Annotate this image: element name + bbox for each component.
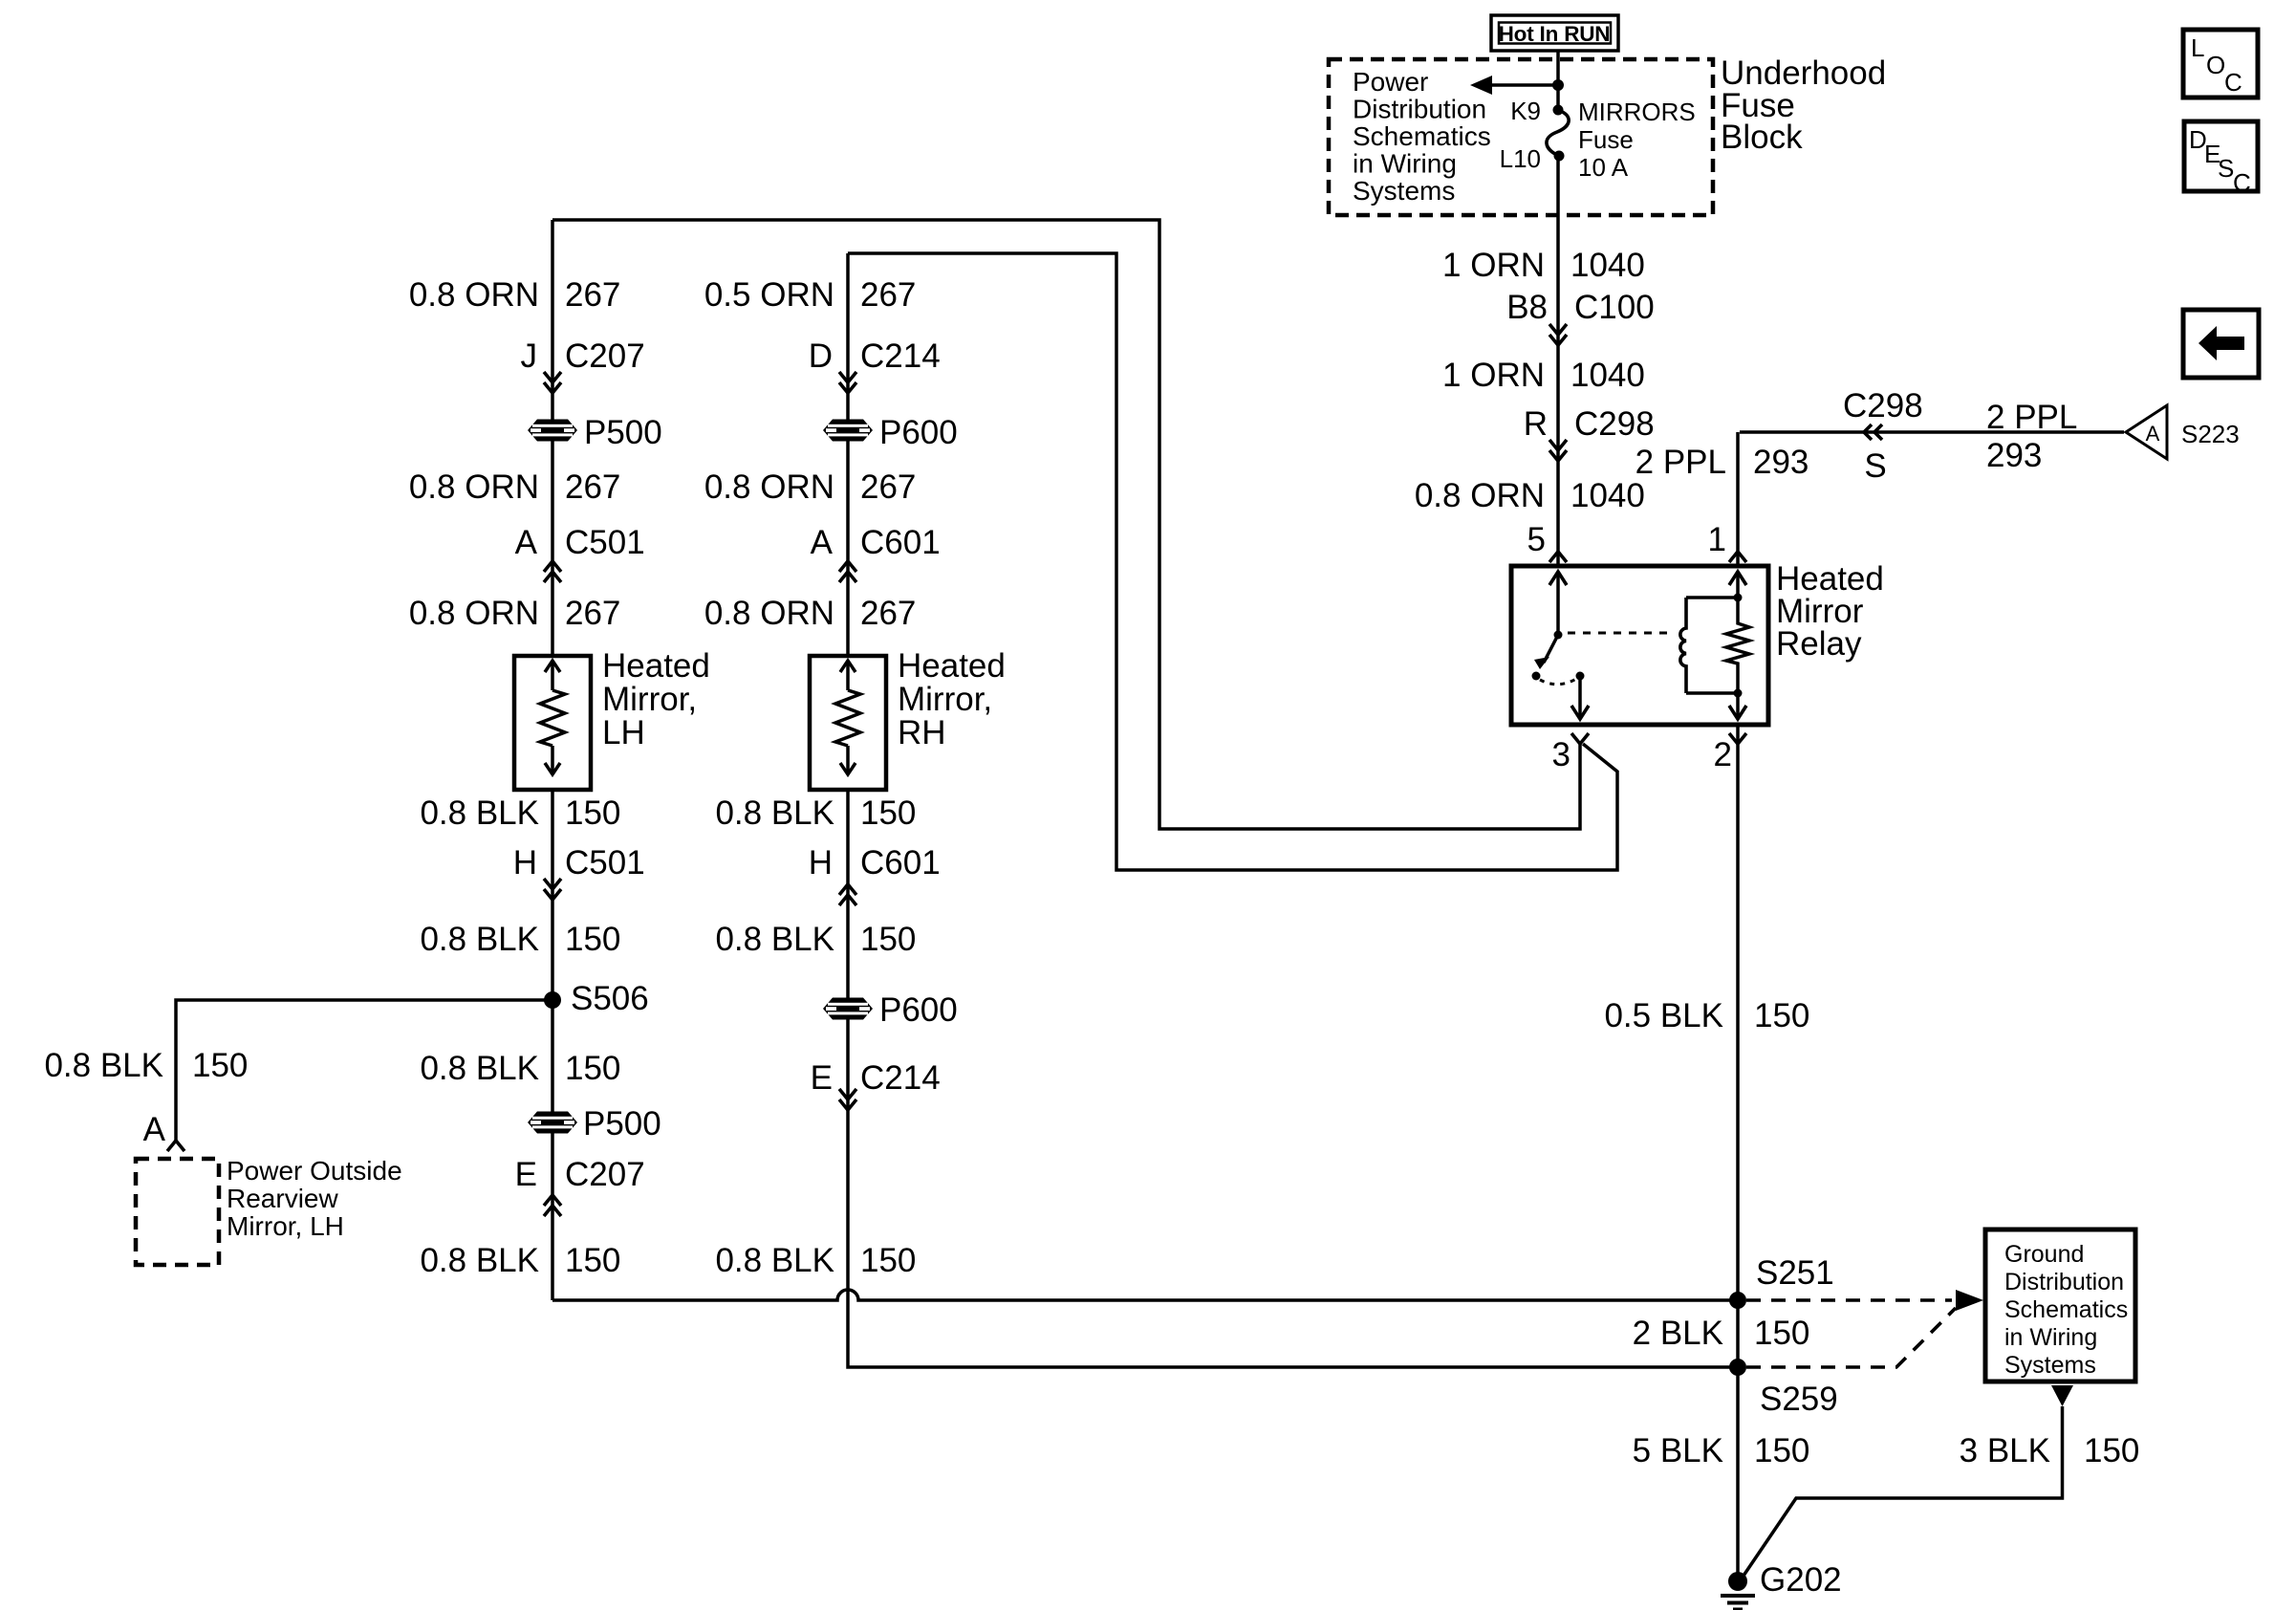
- svg-text:D: D: [809, 337, 833, 375]
- svg-text:150: 150: [1754, 997, 1809, 1034]
- svg-text:0.8 BLK: 0.8 BLK: [420, 921, 539, 958]
- svg-text:0.8 ORN: 0.8 ORN: [1415, 477, 1545, 514]
- svg-text:0.8 ORN: 0.8 ORN: [409, 595, 539, 632]
- svg-text:O: O: [2206, 51, 2225, 79]
- description reference box DESC: [2184, 121, 2258, 197]
- svg-text:Heated: Heated: [898, 647, 1006, 685]
- wire: 2 PPL 293 down to relay pin 1: [1736, 432, 1740, 566]
- relay mechanical link (dashed): [1568, 632, 1675, 635]
- wire: 1 ORN 1040 C100 to C298: [1556, 335, 1560, 450]
- svg-text:2 PPL: 2 PPL: [1986, 399, 2077, 436]
- svg-text:Distribution: Distribution: [1353, 95, 1486, 124]
- dashed reference from S251 to ground distribution schematics: [1746, 1298, 1952, 1302]
- svg-text:150: 150: [1754, 1315, 1809, 1352]
- svg-text:293: 293: [1753, 444, 1809, 481]
- ground G202: [1728, 1572, 1747, 1591]
- svg-text:150: 150: [860, 794, 916, 832]
- wire: 0.8 ORN 267 P600 to C601: [846, 440, 850, 582]
- wire: feed from relay pin 3 to RH mirror column (second run): [848, 253, 1617, 870]
- splice S506: [544, 991, 561, 1009]
- svg-text:150: 150: [565, 1242, 620, 1279]
- relay switch arm (movable contact): [1544, 635, 1558, 663]
- svg-text:Block: Block: [1721, 119, 1803, 156]
- wire: 0.8 ORN 267 C601 to heated mirror RH: [846, 582, 850, 656]
- svg-text:150: 150: [565, 1050, 620, 1087]
- svg-text:Schematics: Schematics: [2004, 1296, 2128, 1323]
- back-arrow reference box: [2183, 310, 2259, 378]
- component: Heated Mirror RH (heater resistor): [810, 656, 886, 790]
- wire: 0.8 BLK 150 C501 to splice S506: [551, 900, 554, 1000]
- wire: LH column P500 to C207 pin E: [551, 1132, 554, 1216]
- wire: 0.8 ORN 267 P500 to C501: [551, 440, 554, 582]
- splice S259: [1729, 1359, 1746, 1376]
- svg-text:L10: L10: [1500, 144, 1541, 173]
- svg-text:LH: LH: [602, 714, 645, 751]
- svg-text:10 A: 10 A: [1578, 153, 1629, 182]
- svg-text:0.8 ORN: 0.8 ORN: [704, 595, 834, 632]
- svg-text:R: R: [1524, 405, 1548, 443]
- svg-text:C501: C501: [565, 844, 645, 881]
- wire: 1 ORN 1040 fuse output to C100: [1556, 156, 1560, 335]
- svg-text:150: 150: [1754, 1432, 1809, 1469]
- svg-text:2: 2: [1714, 736, 1732, 773]
- svg-text:2 BLK: 2 BLK: [1633, 1315, 1723, 1352]
- svg-text:Rearview: Rearview: [227, 1184, 338, 1213]
- relay coil: [1680, 598, 1686, 693]
- wire: RH column C214 to P600: [846, 382, 850, 421]
- wire arrow to power distribution schematics: [1489, 83, 1558, 87]
- grommet P500 (lower): [528, 1112, 577, 1134]
- svg-text:S: S: [2218, 154, 2234, 183]
- svg-text:267: 267: [860, 595, 916, 632]
- svg-text:Systems: Systems: [2004, 1352, 2096, 1379]
- svg-text:C601: C601: [860, 844, 941, 881]
- wire: 0.8 ORN 1040 C298 to relay pin 5: [1556, 450, 1560, 566]
- svg-text:267: 267: [565, 468, 620, 506]
- svg-text:C: C: [2224, 68, 2242, 97]
- underhood fuse block dashed boundary: [1329, 59, 1713, 215]
- wire: 2 PPL 293 from S223 to C298: [1740, 430, 2124, 434]
- svg-text:P600: P600: [879, 991, 958, 1029]
- svg-text:E: E: [811, 1059, 833, 1097]
- svg-text:0.8 ORN: 0.8 ORN: [409, 468, 539, 506]
- fuse: MIRRORS Fuse 10 A (K9 to L10): [1547, 105, 1569, 162]
- svg-text:3: 3: [1552, 736, 1570, 773]
- svg-text:Hot In RUN: Hot In RUN: [1499, 22, 1611, 46]
- svg-text:H: H: [809, 844, 833, 881]
- relay normally-open contact path (dashed throw): [1540, 679, 1576, 685]
- connector arrow from ground distribution box: [2051, 1385, 2073, 1406]
- wire: 2 BLK 150 S251 to S259: [1736, 1300, 1740, 1367]
- svg-text:5 BLK: 5 BLK: [1633, 1432, 1723, 1469]
- svg-text:P600: P600: [879, 414, 958, 451]
- svg-text:MIRRORS: MIRRORS: [1578, 98, 1696, 126]
- svg-text:Systems: Systems: [1353, 176, 1455, 206]
- component: Power Outside Rearview Mirror LH (dashed box): [136, 1159, 219, 1265]
- junction node in fuse block: [1552, 79, 1564, 91]
- relay U1: Heated Mirror Relay box: [1511, 566, 1768, 725]
- relay pin 3 internal lead: [1578, 676, 1582, 718]
- wire: 0.8 BLK 150 C601 to P600: [846, 905, 850, 999]
- wire: 0.8 ORN 267 LH column top to C207: [551, 220, 554, 382]
- svg-text:150: 150: [2084, 1432, 2139, 1469]
- svg-text:0.8 BLK: 0.8 BLK: [715, 1242, 834, 1279]
- svg-text:Fuse: Fuse: [1578, 125, 1634, 154]
- svg-text:C207: C207: [565, 1156, 645, 1193]
- svg-text:Schematics: Schematics: [1353, 121, 1491, 151]
- wire: 3 BLK 150 ground distribution to G202: [1742, 1406, 2063, 1578]
- wire: Hot In RUN feed into fuse block: [1556, 50, 1560, 110]
- svg-text:A: A: [143, 1111, 166, 1148]
- svg-text:3 BLK: 3 BLK: [1960, 1432, 2050, 1469]
- svg-text:P500: P500: [584, 414, 662, 451]
- svg-text:Relay: Relay: [1776, 625, 1862, 663]
- relay suppression resistor: [1726, 572, 1749, 718]
- svg-text:0.8 BLK: 0.8 BLK: [420, 794, 539, 832]
- svg-text:150: 150: [565, 921, 620, 958]
- wire: LH column C207 to P500: [551, 382, 554, 421]
- svg-text:C214: C214: [860, 1059, 941, 1097]
- svg-text:A: A: [2146, 422, 2160, 446]
- connector C298 pin S on horizontal run: [1864, 424, 1882, 440]
- svg-text:150: 150: [860, 921, 916, 958]
- svg-text:1: 1: [1708, 521, 1726, 558]
- svg-text:J: J: [521, 337, 538, 375]
- splice S251: [1729, 1292, 1746, 1309]
- svg-text:G202: G202: [1760, 1561, 1842, 1599]
- svg-text:2 PPL: 2 PPL: [1635, 444, 1726, 481]
- wire: ground run from LH column to splice S251 (hops RH column): [552, 1290, 1738, 1300]
- svg-text:K9: K9: [1510, 97, 1541, 125]
- svg-text:RH: RH: [898, 714, 946, 751]
- svg-text:150: 150: [860, 1242, 916, 1279]
- svg-text:150: 150: [565, 794, 620, 832]
- svg-text:Mirror,: Mirror,: [898, 681, 992, 718]
- svg-text:267: 267: [860, 468, 916, 506]
- svg-text:S223: S223: [2181, 420, 2240, 448]
- location reference box LOC: [2183, 30, 2258, 98]
- svg-text:S251: S251: [1756, 1254, 1834, 1292]
- grommet P600 (lower): [823, 998, 873, 1020]
- svg-text:Ground: Ground: [2004, 1241, 2084, 1268]
- wire: 0.8 ORN 267 C501 to heated mirror LH: [551, 582, 554, 656]
- component: Heated Mirror LH (heater resistor): [514, 656, 591, 790]
- svg-text:A: A: [811, 524, 834, 561]
- svg-text:1040: 1040: [1570, 477, 1645, 514]
- note box: Ground Distribution Schematics in Wiring Systems: [1985, 1229, 2135, 1382]
- svg-text:C501: C501: [565, 524, 645, 561]
- svg-text:L: L: [2191, 33, 2204, 62]
- splice connector S223 (triangle A): [2126, 405, 2167, 459]
- svg-text:S506: S506: [571, 980, 649, 1017]
- svg-text:0.8 BLK: 0.8 BLK: [420, 1242, 539, 1279]
- svg-text:Power Outside: Power Outside: [227, 1156, 402, 1186]
- svg-text:Mirror, LH: Mirror, LH: [227, 1211, 344, 1241]
- relay switch common (pin 5 internal): [1556, 572, 1560, 635]
- svg-text:Heated: Heated: [602, 647, 710, 685]
- svg-text:C214: C214: [860, 337, 941, 375]
- svg-text:in Wiring: in Wiring: [2004, 1324, 2097, 1351]
- wire: 0.8 BLK 150 branch from S506 to power outside rearview mirror LH: [176, 1000, 552, 1141]
- svg-text:1040: 1040: [1570, 357, 1645, 394]
- svg-text:0.8 BLK: 0.8 BLK: [715, 794, 834, 832]
- grommet P600: [823, 420, 873, 442]
- svg-text:P500: P500: [583, 1105, 661, 1142]
- wire: 0.8 BLK 150 heated mirror RH to C601: [846, 790, 850, 905]
- wire: RH column P600 to C214 pin E: [846, 1018, 850, 1110]
- svg-text:0.8 BLK: 0.8 BLK: [715, 921, 834, 958]
- svg-text:293: 293: [1986, 437, 2042, 474]
- svg-text:0.5 BLK: 0.5 BLK: [1604, 997, 1723, 1034]
- svg-text:0.8 ORN: 0.8 ORN: [409, 276, 539, 314]
- svg-text:267: 267: [860, 276, 916, 314]
- svg-text:C601: C601: [860, 524, 941, 561]
- svg-text:E: E: [515, 1156, 537, 1193]
- svg-text:C207: C207: [565, 337, 645, 375]
- svg-text:C100: C100: [1574, 289, 1655, 326]
- wire: 0.8 BLK 150 heated mirror LH to C501: [551, 790, 554, 900]
- svg-text:Power: Power: [1353, 67, 1428, 97]
- wire: 0.8 BLK 150 S506 to P500: [551, 1000, 554, 1113]
- svg-text:S: S: [1864, 447, 1886, 485]
- svg-text:1 ORN: 1 ORN: [1442, 357, 1545, 394]
- wire: 0.8 BLK 150 C207 to ground run: [551, 1216, 554, 1300]
- svg-text:C298: C298: [1843, 387, 1923, 424]
- svg-text:5: 5: [1527, 521, 1546, 558]
- svg-text:150: 150: [192, 1047, 248, 1084]
- svg-text:0.8 BLK: 0.8 BLK: [44, 1047, 163, 1084]
- svg-text:in Wiring: in Wiring: [1353, 149, 1457, 179]
- svg-text:B8: B8: [1506, 289, 1548, 326]
- svg-text:A: A: [515, 524, 538, 561]
- connector box: Hot In RUN: [1491, 15, 1618, 51]
- wire: 0.8 BLK 150 C214 to splice S259 run: [848, 1110, 1738, 1367]
- svg-text:0.8 BLK: 0.8 BLK: [420, 1050, 539, 1087]
- svg-text:S259: S259: [1760, 1381, 1838, 1418]
- wire: feed from relay pin 3 to LH mirror column (top run): [552, 220, 1580, 829]
- grommet P500: [528, 420, 577, 442]
- svg-text:C298: C298: [1574, 405, 1655, 443]
- wire: 5 BLK 150 S259 to ground G202: [1736, 1367, 1740, 1581]
- svg-text:0.5 ORN: 0.5 ORN: [704, 276, 834, 314]
- svg-text:1040: 1040: [1570, 247, 1645, 284]
- dashed reference from S259 to ground distribution schematics: [1746, 1308, 1956, 1367]
- svg-text:Mirror,: Mirror,: [602, 681, 697, 718]
- svg-text:C: C: [2233, 168, 2251, 197]
- wire: 0.5 BLK 150 relay pin 2 to splice S251: [1736, 725, 1740, 1300]
- svg-text:267: 267: [565, 595, 620, 632]
- svg-text:H: H: [513, 844, 537, 881]
- svg-text:267: 267: [565, 276, 620, 314]
- svg-text:1 ORN: 1 ORN: [1442, 247, 1545, 284]
- wire: 0.5 ORN 267 RH column top to C214: [846, 253, 850, 382]
- svg-text:0.8 ORN: 0.8 ORN: [704, 468, 834, 506]
- svg-text:Distribution: Distribution: [2004, 1269, 2124, 1295]
